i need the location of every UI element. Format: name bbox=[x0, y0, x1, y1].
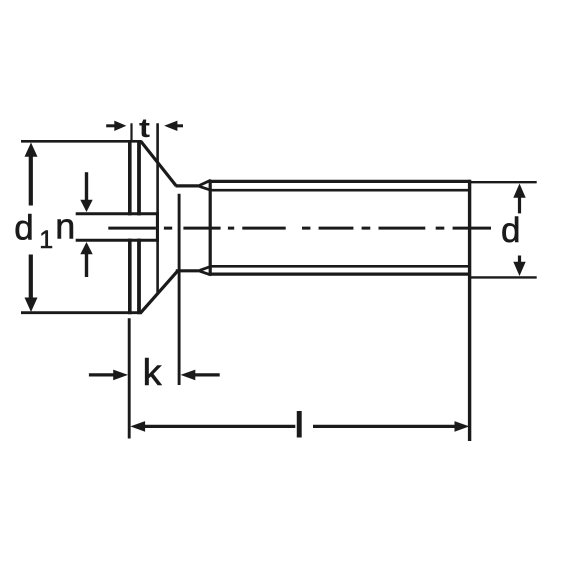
t left extension line bbox=[130, 123, 132, 140]
d bottom extension line bbox=[470, 276, 537, 278]
k right extension line bbox=[178, 194, 181, 385]
slot bottom line bbox=[156, 123, 159, 292]
svg-text:l: l bbox=[294, 404, 304, 445]
screw end line / l right extension line bbox=[468, 180, 471, 441]
thread root bottom line bbox=[210, 265, 468, 268]
d1 dimension line upper arrow bbox=[25, 143, 38, 206]
thread root top line bbox=[210, 189, 468, 192]
slot face line bbox=[137, 140, 141, 314]
head top edge / d1 top extension line bbox=[21, 140, 142, 143]
n bottom arrow bbox=[80, 242, 92, 277]
neck top line bbox=[176, 184, 202, 187]
svg-text:d: d bbox=[14, 209, 33, 248]
d dimension lower arrow bbox=[513, 256, 525, 277]
head cone top slant bbox=[141, 141, 176, 186]
centerline (screw axis, dash-dot) bbox=[108, 227, 491, 230]
slot band (slot width n, section) bbox=[75, 212, 159, 241]
thread crest bottom line bbox=[210, 273, 470, 276]
k right arrow bbox=[181, 370, 220, 381]
svg-text:d: d bbox=[501, 211, 520, 250]
svg-text:t: t bbox=[139, 113, 150, 143]
d top extension line bbox=[470, 181, 537, 183]
svg-text:n: n bbox=[55, 206, 75, 247]
t right arrow bbox=[164, 121, 183, 131]
head face line bbox=[128, 140, 132, 314]
d1 dimension line lower arrow bbox=[25, 255, 38, 313]
thread run-out bottom wedge bbox=[200, 266, 211, 275]
l dimension line with outward arrows bbox=[130, 421, 469, 432]
svg-text:1: 1 bbox=[39, 226, 53, 254]
k left extension line (below head) bbox=[128, 318, 131, 438]
head bottom edge / d1 bottom extension line bbox=[21, 311, 142, 314]
d dimension upper arrow bbox=[513, 184, 525, 214]
head cone bottom slant bbox=[140, 271, 177, 313]
n top arrow bbox=[80, 172, 92, 212]
neck bottom line bbox=[176, 269, 202, 272]
thread start line bbox=[209, 180, 212, 276]
k left arrow bbox=[89, 370, 128, 381]
t left arrow bbox=[106, 121, 126, 131]
svg-text:k: k bbox=[143, 352, 163, 393]
thread run-out top wedge bbox=[200, 180, 211, 190]
thread crest top line bbox=[210, 180, 470, 183]
